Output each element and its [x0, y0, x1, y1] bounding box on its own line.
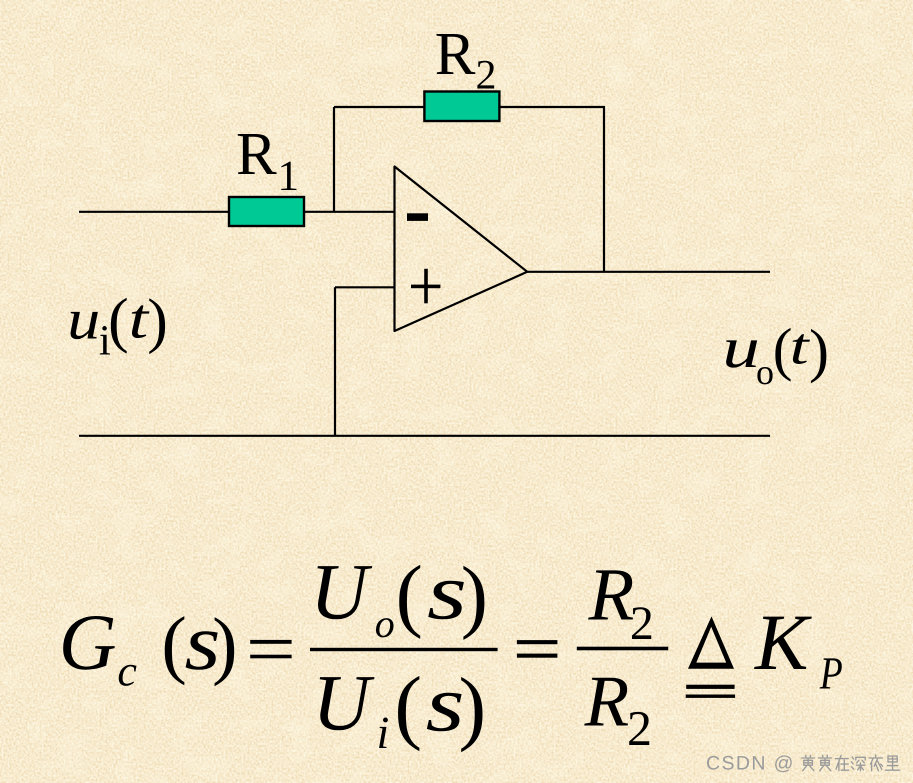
wire vertical feedback right	[603, 106, 605, 272]
watermark hanzi shen	[852, 757, 866, 771]
watermark hanzi ye	[869, 755, 882, 771]
svg-text:2: 2	[476, 52, 497, 98]
svg-text:2: 2	[630, 597, 654, 650]
wire output	[527, 271, 770, 273]
op-amp U1 triangle	[395, 167, 528, 332]
svg-text:o: o	[756, 352, 774, 392]
watermark hanzi li	[886, 756, 900, 770]
svg-text:R: R	[584, 661, 630, 742]
svg-text:P: P	[819, 647, 843, 698]
svg-text:u: u	[722, 315, 760, 380]
svg-text:i: i	[377, 707, 390, 758]
svg-text:c: c	[117, 647, 137, 696]
watermark hanzi huang	[802, 755, 815, 770]
wire input	[79, 211, 229, 213]
svg-text:): )	[459, 661, 487, 753]
svg-text:G: G	[59, 599, 117, 687]
svg-text:R: R	[588, 553, 635, 636]
svg-text:(: (	[161, 601, 186, 686]
label R2	[435, 21, 497, 99]
op-amp plus sign	[411, 269, 440, 304]
svg-text:CSDN @: CSDN @	[706, 753, 795, 775]
svg-text:): )	[809, 317, 829, 383]
watermark CSDN	[706, 753, 900, 775]
svg-text:1: 1	[278, 153, 300, 200]
svg-text:R: R	[435, 21, 476, 88]
svg-text:): )	[212, 602, 237, 687]
svg-text:2: 2	[627, 700, 652, 756]
svg-text:U: U	[310, 548, 373, 636]
svg-text:R: R	[236, 121, 277, 188]
wire top left to R2	[334, 106, 424, 108]
svg-text:K: K	[754, 599, 812, 687]
node uo(t) label	[722, 315, 829, 392]
wire plus input	[335, 286, 395, 288]
wire R1 to op-amp	[304, 211, 395, 213]
svg-text:u: u	[67, 286, 100, 351]
svg-text:U: U	[312, 659, 375, 747]
svg-text:): )	[461, 550, 488, 641]
op-amp minus sign	[407, 213, 428, 221]
equals 1	[250, 640, 291, 644]
fraction bar 2	[577, 647, 668, 651]
svg-text:(: (	[108, 286, 129, 354]
svg-text:): )	[147, 287, 168, 355]
wire bottom	[79, 435, 770, 437]
fraction bar 1	[310, 648, 498, 651]
svg-text:(: (	[396, 548, 423, 639]
watermark hanzi zai	[836, 755, 849, 770]
watermark hanzi huang 2	[819, 755, 832, 770]
svg-text:(: (	[394, 660, 422, 752]
wire vertical plus to bottom	[334, 287, 336, 436]
node ui(t) label	[67, 286, 168, 364]
equals 2	[517, 640, 558, 644]
resistor R1	[229, 197, 304, 226]
formula Gc(s) = Uo(s)/Ui(s) = R2/R2 (delta-eq) KP	[59, 548, 843, 758]
wire R2 to right vertical	[499, 106, 604, 108]
resistor R2	[424, 92, 499, 122]
label R1	[236, 121, 299, 200]
wire vertical feedback left	[333, 107, 335, 212]
svg-text:t: t	[790, 319, 811, 376]
svg-text:o: o	[375, 601, 395, 646]
delta-equals symbol	[688, 616, 734, 668]
